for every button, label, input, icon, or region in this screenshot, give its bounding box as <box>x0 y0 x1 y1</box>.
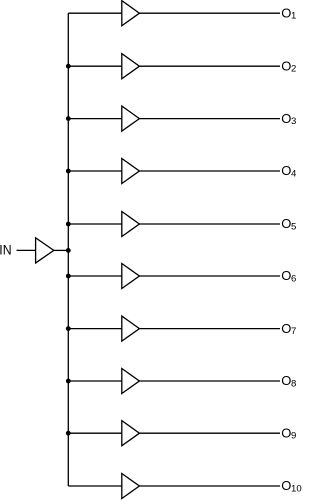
svg-text:O9: O9 <box>281 425 296 441</box>
svg-text:IN: IN <box>0 242 12 257</box>
output buffer 7 <box>122 316 140 341</box>
wire: buffer 1 to output O1 <box>139 12 280 14</box>
wire: buffer 3 to output O3 <box>139 118 280 120</box>
svg-text:O7: O7 <box>281 321 296 337</box>
output buffer 4 <box>122 158 140 183</box>
output buffer 3 <box>122 106 140 131</box>
output buffer 6 <box>122 263 140 288</box>
output buffer 10 <box>122 473 140 498</box>
wire: vertical distribution bus <box>67 13 69 486</box>
junction: node O9 tap on bus <box>66 431 71 436</box>
wire: bus to buffer 7 <box>68 328 122 330</box>
wire: IN to input buffer <box>17 249 36 251</box>
wire: bus to buffer 10 <box>68 485 122 487</box>
wire: bus to buffer 1 <box>68 12 122 14</box>
svg-text:O10: O10 <box>281 478 301 494</box>
wire: buffer 8 to output O8 <box>139 380 280 382</box>
svg-text:O3: O3 <box>281 111 296 127</box>
wire: buffer 2 to output O2 <box>139 65 280 67</box>
junction: node O5 tap on bus <box>66 222 71 227</box>
wire: buffer 10 to output O10 <box>139 485 280 487</box>
junction: input node on bus <box>66 248 71 253</box>
svg-text:O8: O8 <box>281 373 296 389</box>
input buffer <box>36 238 54 263</box>
wire: bus to buffer 8 <box>68 380 122 382</box>
svg-text:O5: O5 <box>281 216 296 232</box>
wire: buffer 6 to output O6 <box>139 275 280 277</box>
junction: node O8 tap on bus <box>66 379 71 384</box>
wire: input buffer to bus <box>54 249 69 251</box>
wire: buffer 9 to output O9 <box>139 432 280 434</box>
wire: buffer 7 to output O7 <box>139 328 280 330</box>
output buffer 9 <box>122 421 140 446</box>
wire: bus to buffer 5 <box>68 223 122 225</box>
wire: bus to buffer 3 <box>68 118 122 120</box>
output buffer 2 <box>122 54 140 79</box>
svg-text:O4: O4 <box>281 163 297 179</box>
junction: node O2 tap on bus <box>66 64 71 69</box>
output buffer 1 <box>122 1 140 26</box>
junction: node O6 tap on bus <box>66 274 71 279</box>
output buffer 5 <box>122 211 140 236</box>
svg-text:O6: O6 <box>281 268 296 284</box>
junction: node O3 tap on bus <box>66 116 71 121</box>
junction: node O7 tap on bus <box>66 326 71 331</box>
svg-text:O1: O1 <box>281 5 296 21</box>
junction: node O4 tap on bus <box>66 169 71 174</box>
wire: bus to buffer 2 <box>68 65 122 67</box>
wire: bus to buffer 6 <box>68 275 122 277</box>
wire: bus to buffer 9 <box>68 432 122 434</box>
wire: bus to buffer 4 <box>68 170 122 172</box>
wire: buffer 4 to output O4 <box>139 170 280 172</box>
svg-text:O2: O2 <box>281 58 296 74</box>
wire: buffer 5 to output O5 <box>139 223 280 225</box>
output buffer 8 <box>122 368 140 393</box>
